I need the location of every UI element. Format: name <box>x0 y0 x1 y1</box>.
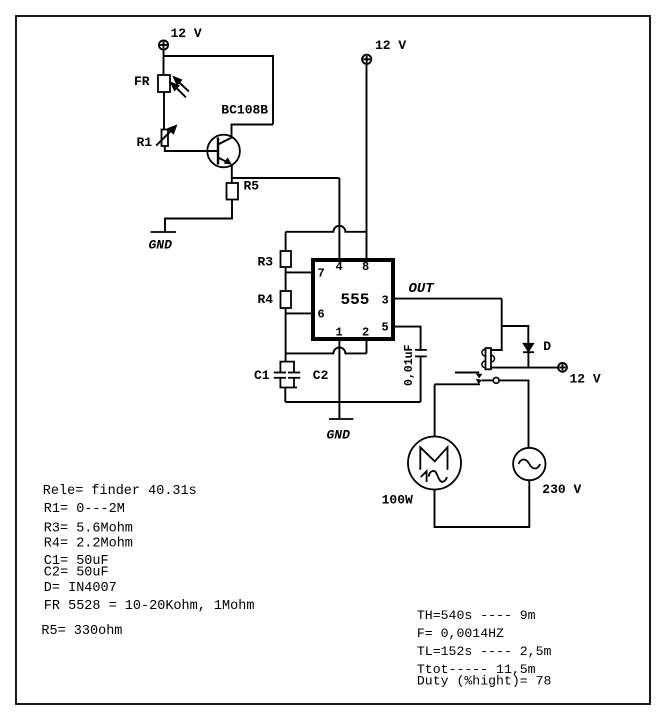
FR light arrows <box>171 77 189 97</box>
pin 7 wire <box>286 271 311 273</box>
wire top rail to collector drop <box>164 56 274 125</box>
svg-text:C1: C1 <box>254 368 270 383</box>
diode D <box>523 343 534 351</box>
svg-text:6: 6 <box>318 308 325 322</box>
wire caps to pin2 with hop <box>286 347 367 353</box>
svg-text:R3: R3 <box>258 255 274 270</box>
svg-text:TL=152s ---- 2,5m: TL=152s ---- 2,5m <box>417 644 552 659</box>
svg-text:C2= 50uF: C2= 50uF <box>44 565 109 580</box>
relay coil K1 <box>482 348 495 369</box>
lamp/motor M1 <box>408 437 461 490</box>
resistor R4 <box>281 291 292 308</box>
pin 6 wire <box>286 312 311 314</box>
svg-text:R3= 5.6Mohm: R3= 5.6Mohm <box>44 522 133 537</box>
svg-text:Rele= finder 40.31s: Rele= finder 40.31s <box>43 484 197 499</box>
wire switch to AC <box>499 380 528 448</box>
svg-text:5: 5 <box>382 321 389 335</box>
svg-text:F= 0,0014HZ: F= 0,0014HZ <box>417 626 504 641</box>
wire diode down <box>527 352 529 367</box>
wire switch to motor <box>434 384 436 437</box>
svg-text:R4: R4 <box>258 292 274 307</box>
wire OUT down to coil <box>491 299 502 350</box>
svg-text:Duty (%hight)= 78: Duty (%hight)= 78 <box>417 674 552 689</box>
switch contact stub to pivot <box>482 379 493 381</box>
wire FR to R1 <box>163 92 165 130</box>
switch arrowhead up-left <box>476 379 483 384</box>
svg-text:2: 2 <box>362 326 369 340</box>
wire R3 top rail with hop <box>286 226 367 232</box>
IC U1 555 <box>313 260 393 339</box>
switch arrowhead down <box>476 374 482 379</box>
wire pin2 down <box>366 339 368 353</box>
svg-text:230 V: 230 V <box>542 482 581 497</box>
emitter wire down <box>231 165 233 183</box>
svg-text:BC108B: BC108B <box>221 103 268 118</box>
svg-text:0,01uF: 0,01uF <box>403 344 416 386</box>
svg-text:GND: GND <box>149 238 173 253</box>
wire cap to rail <box>420 356 422 402</box>
wire T2 down to pin 8 <box>366 64 368 258</box>
svg-text:555: 555 <box>341 291 370 309</box>
capacitors C1 C2 <box>274 362 300 388</box>
12V terminal T2 (top middle) <box>362 55 371 64</box>
svg-text:3: 3 <box>382 294 389 308</box>
pin 3 OUT wire <box>395 298 502 300</box>
wire pin4 drop <box>338 178 340 258</box>
svg-text:12 V: 12 V <box>375 38 406 53</box>
wire R1 to base <box>165 146 218 151</box>
collector wire <box>232 125 274 138</box>
notes text block right <box>417 608 552 689</box>
svg-text:100W: 100W <box>382 493 413 508</box>
svg-text:R1= 0---2M: R1= 0---2M <box>44 502 125 517</box>
switch arm <box>435 383 480 385</box>
pin 5 wire <box>395 327 421 350</box>
wire branch to diode <box>502 326 529 343</box>
svg-text:8: 8 <box>362 260 369 274</box>
photoresistor FR <box>158 75 170 92</box>
ground (left) <box>151 231 177 233</box>
capacitor 0,01uF <box>415 350 427 357</box>
switch pivot circle <box>493 378 499 384</box>
svg-text:GND: GND <box>327 428 351 443</box>
relay switch fixed contact <box>455 372 479 374</box>
bottom rail <box>285 401 420 403</box>
svg-text:12 V: 12 V <box>570 372 601 387</box>
svg-text:D: D <box>543 339 551 354</box>
svg-text:R5: R5 <box>244 179 260 194</box>
svg-text:4: 4 <box>336 260 343 274</box>
motor M glyph <box>420 447 447 470</box>
resistor R3 <box>281 251 292 267</box>
R1 arrow <box>156 126 176 146</box>
svg-text:R1: R1 <box>137 135 153 150</box>
wire caps bottom to rail <box>284 388 286 403</box>
wire R5 to GND <box>165 200 232 233</box>
notes text block left <box>41 484 254 639</box>
svg-text:R5= 330ohm: R5= 330ohm <box>41 624 122 639</box>
sine glyph <box>519 460 541 469</box>
svg-text:R4= 2.2Mohm: R4= 2.2Mohm <box>44 536 133 551</box>
svg-text:1: 1 <box>336 326 343 340</box>
svg-text:12 V: 12 V <box>171 26 202 41</box>
emitter arrowhead <box>224 157 232 164</box>
resistor R5 <box>227 183 239 200</box>
wire T1 down to FR <box>163 50 165 75</box>
variable resistor R1 <box>162 130 169 147</box>
wire down to R3 <box>285 232 287 251</box>
wires motor/AC bottom loop <box>435 480 530 527</box>
12V terminal T3 <box>558 363 567 372</box>
wire R3 to pin7 and R4 <box>285 267 287 291</box>
wire R4 down to caps <box>285 308 287 362</box>
svg-text:TH=540s ---- 9m: TH=540s ---- 9m <box>417 608 536 623</box>
svg-text:FR: FR <box>134 74 150 89</box>
ground (middle) <box>329 418 353 420</box>
motor 1~ glyph <box>421 471 427 482</box>
svg-text:D= IN4007: D= IN4007 <box>44 581 117 596</box>
svg-text:FR 5528 = 10-20Kohm, 1Mohm: FR 5528 = 10-20Kohm, 1Mohm <box>44 599 255 614</box>
svg-text:OUT: OUT <box>409 281 436 297</box>
wire emitter to pin4 drop <box>232 177 340 179</box>
svg-text:7: 7 <box>318 267 325 281</box>
svg-text:C2: C2 <box>313 368 329 383</box>
wire pin1 down to ground <box>338 339 340 419</box>
transistor Q1 BC108B <box>207 135 240 168</box>
wire coil to 12V terminal <box>491 367 558 369</box>
12V terminal T1 (top left) <box>159 40 168 49</box>
AC source V1 <box>513 448 545 480</box>
